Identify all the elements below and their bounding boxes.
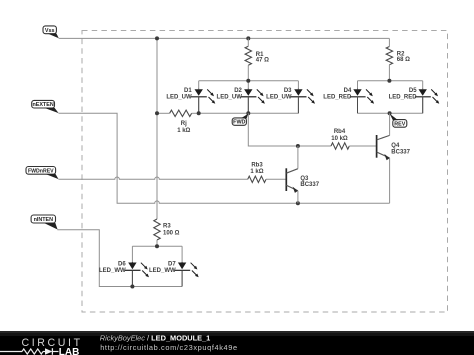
net flag FWDnREV: [26, 167, 59, 180]
footer url text: [100, 343, 238, 352]
svg-text:BC337: BC337: [391, 150, 410, 156]
svg-text:nINTEN: nINTEN: [34, 217, 54, 223]
junction Rj left: [155, 111, 159, 115]
svg-text:D3: D3: [284, 88, 292, 94]
svg-text:Rj: Rj: [181, 121, 187, 127]
svg-text:10 kΩ: 10 kΩ: [331, 136, 348, 142]
junction R3 to LED_WW rail: [155, 244, 159, 248]
label Rj value: [177, 121, 190, 134]
svg-text:D2: D2: [234, 88, 242, 94]
junction D1 cathode: [197, 111, 201, 115]
svg-text:LED_UW: LED_UW: [266, 95, 292, 101]
label D7: [149, 261, 176, 274]
wire FWD node to Rb4: [248, 113, 331, 146]
svg-text:LAB: LAB: [59, 347, 80, 355]
footer title text: [100, 333, 211, 342]
svg-text:D7: D7: [168, 261, 176, 267]
dashed outline border of module: [82, 31, 448, 313]
label D1: [166, 88, 192, 101]
svg-text:Vss: Vss: [45, 28, 55, 34]
junction Q3 emitter on rail: [296, 201, 300, 205]
svg-text:BC337: BC337: [300, 182, 319, 188]
svg-text:R3: R3: [163, 224, 171, 230]
LED D2: [241, 89, 265, 114]
svg-text:1 kΩ: 1 kΩ: [250, 169, 263, 175]
svg-text:68 Ω: 68 Ω: [397, 57, 410, 63]
LED D4: [350, 89, 374, 114]
junction Q3 collector node: [296, 144, 300, 148]
resistor R1: [245, 38, 251, 80]
junction nINTEN to D6 cathode: [130, 285, 134, 289]
svg-text:RickyBoyElec / LED_MODULE_1: RickyBoyElec / LED_MODULE_1: [100, 333, 211, 342]
label D6: [99, 261, 126, 274]
transistor Q3: [286, 146, 298, 203]
CircuitLab logo wordmark CIRCUIT: [22, 337, 83, 349]
transistor Q4: [377, 113, 390, 203]
svg-text:D5: D5: [409, 88, 417, 94]
footer bar: [0, 331, 474, 355]
svg-text:1 kΩ: 1 kΩ: [177, 128, 190, 134]
junction Vss-R1: [246, 36, 250, 40]
resistor Rb3: [248, 176, 287, 182]
LED D5: [415, 89, 439, 114]
label Rb4 value: [331, 129, 348, 142]
svg-text:D6: D6: [118, 261, 126, 267]
net flag FWD: [232, 114, 248, 126]
wire Vss drop to Rj and R3: [156, 38, 158, 219]
svg-text:LED_RED: LED_RED: [389, 95, 418, 101]
net flag REV: [390, 114, 407, 128]
LED D3: [291, 89, 315, 114]
svg-text:LED_WW: LED_WW: [99, 268, 126, 274]
junction D2 cathode FWD: [246, 111, 250, 115]
wire Vss rail: [59, 37, 390, 39]
junction R2 to top rail: [387, 79, 391, 83]
resistor Rb4: [331, 143, 377, 149]
LED D7: [174, 262, 198, 287]
svg-text:Q4: Q4: [391, 143, 400, 149]
junction Vss-drop: [155, 36, 159, 40]
label Rb3 value: [250, 162, 263, 175]
label Q4: [391, 143, 410, 156]
svg-text:Rb3: Rb3: [251, 162, 263, 168]
svg-text:nEXTEN: nEXTEN: [32, 102, 53, 108]
wire nINTEN to LED_WW cathode rail: [57, 230, 132, 287]
CircuitLab logo resistor-diode line and LAB: [0, 347, 79, 355]
label R2 value: [397, 52, 410, 64]
svg-text:100 Ω: 100 Ω: [163, 231, 180, 237]
net flag nEXTEN: [32, 100, 59, 113]
label D5: [389, 88, 418, 101]
junction REV node: [388, 111, 392, 115]
resistor R3: [154, 219, 160, 246]
wire nEXTEN to emitter rail: [59, 113, 390, 203]
wire LED_RED group top rail: [358, 81, 423, 89]
svg-text:D4: D4: [344, 88, 352, 94]
label R3 value: [163, 224, 180, 237]
svg-text:Rb4: Rb4: [334, 129, 346, 135]
wire LED_UW group bottom rail: [199, 97, 299, 114]
svg-text:FWDnREV: FWDnREV: [28, 168, 54, 174]
wire LED_UW group top rail: [199, 81, 299, 89]
label D4: [323, 88, 352, 101]
svg-text:LED_RED: LED_RED: [323, 95, 352, 101]
svg-text:D1: D1: [184, 88, 192, 94]
resistor R2: [386, 38, 392, 80]
svg-text:LED_UW: LED_UW: [217, 95, 243, 101]
label D2: [217, 88, 243, 101]
svg-text:REV: REV: [394, 121, 405, 127]
junction R1 to top rail: [246, 79, 250, 83]
svg-text:LED_UW: LED_UW: [166, 95, 192, 101]
label R1 value: [256, 52, 269, 64]
wire LED_RED group bottom rail: [358, 97, 423, 114]
svg-text:FWD: FWD: [233, 120, 245, 126]
label D3: [266, 88, 292, 101]
resistor Rj: [157, 110, 199, 116]
svg-text:47 Ω: 47 Ω: [256, 57, 269, 63]
wire LED_WW group bottom rail: [132, 270, 182, 286]
label Q3: [300, 176, 319, 188]
wire LED_WW group top rail: [132, 246, 182, 262]
LED D6: [125, 262, 149, 287]
svg-text:http://circuitlab.com/c23xpuqf: http://circuitlab.com/c23xpuqf4k49e: [100, 343, 238, 352]
svg-text:LED_WW: LED_WW: [149, 268, 176, 274]
wire FWDnREV to Rb3: [58, 177, 247, 179]
net flag Vss: [43, 26, 59, 38]
LED D1: [191, 89, 215, 114]
net flag nINTEN: [31, 215, 57, 230]
